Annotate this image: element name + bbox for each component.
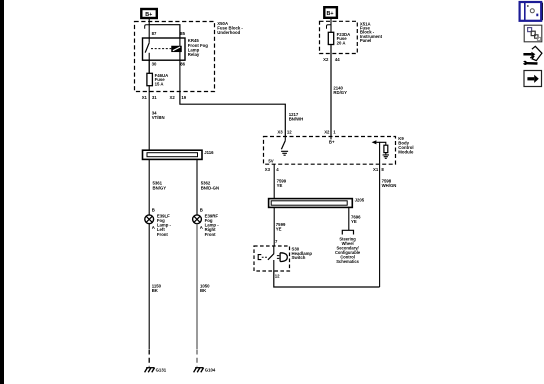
svg-text:X3: X3	[277, 129, 283, 134]
svg-text:J205: J205	[355, 197, 365, 202]
svg-text:B+: B+	[145, 12, 152, 18]
svg-text:15 A: 15 A	[155, 81, 164, 86]
svg-text:30: 30	[152, 61, 157, 66]
svg-text:12: 12	[275, 273, 280, 278]
svg-text:G104: G104	[205, 368, 216, 373]
svg-text:B: B	[152, 208, 155, 213]
svg-text:B+: B+	[327, 11, 334, 17]
svg-text:VT/BN: VT/BN	[152, 115, 165, 120]
svg-text:A: A	[152, 225, 155, 230]
svg-text:5V: 5V	[268, 158, 273, 163]
svg-text:YE: YE	[351, 219, 357, 224]
svg-text:BN/D-GN: BN/D-GN	[201, 185, 219, 190]
svg-text:Relay: Relay	[188, 52, 200, 57]
svg-text:86: 86	[180, 61, 185, 66]
svg-text:A: A	[200, 225, 203, 230]
svg-text:31: 31	[152, 95, 157, 100]
svg-text:J116: J116	[204, 150, 214, 155]
svg-text:BK: BK	[200, 288, 207, 293]
svg-text:G131: G131	[156, 368, 167, 373]
svg-text:20 A: 20 A	[337, 40, 346, 45]
svg-text:12: 12	[287, 129, 292, 134]
svg-text:B: B	[200, 208, 203, 213]
svg-text:19: 19	[181, 95, 186, 100]
svg-text:Front: Front	[157, 232, 169, 237]
svg-text:WH/GN: WH/GN	[382, 183, 397, 188]
svg-text:X1: X1	[373, 167, 379, 172]
svg-text:X2: X2	[324, 129, 330, 134]
svg-text:44: 44	[335, 57, 340, 62]
svg-text:X3: X3	[265, 167, 271, 172]
svg-text:BN/GY: BN/GY	[153, 185, 167, 190]
svg-text:Panel: Panel	[360, 38, 371, 43]
svg-text:X1: X1	[142, 95, 148, 100]
svg-text:87: 87	[152, 31, 157, 36]
svg-text:BK: BK	[152, 288, 159, 293]
svg-text:Schematics: Schematics	[336, 259, 359, 264]
svg-text:RD/GY: RD/GY	[333, 90, 347, 95]
svg-text:Underhood: Underhood	[217, 30, 240, 35]
svg-text:X2: X2	[170, 95, 176, 100]
svg-text:X2: X2	[323, 57, 329, 62]
svg-text:YE: YE	[277, 183, 283, 188]
svg-text:85: 85	[180, 31, 185, 36]
svg-text:BN/WH: BN/WH	[289, 116, 304, 121]
svg-text:Module: Module	[398, 150, 414, 155]
svg-text:Front: Front	[205, 232, 217, 237]
svg-text:B+: B+	[329, 139, 335, 144]
svg-text:YE: YE	[276, 227, 282, 232]
svg-text:Switch: Switch	[292, 255, 306, 260]
